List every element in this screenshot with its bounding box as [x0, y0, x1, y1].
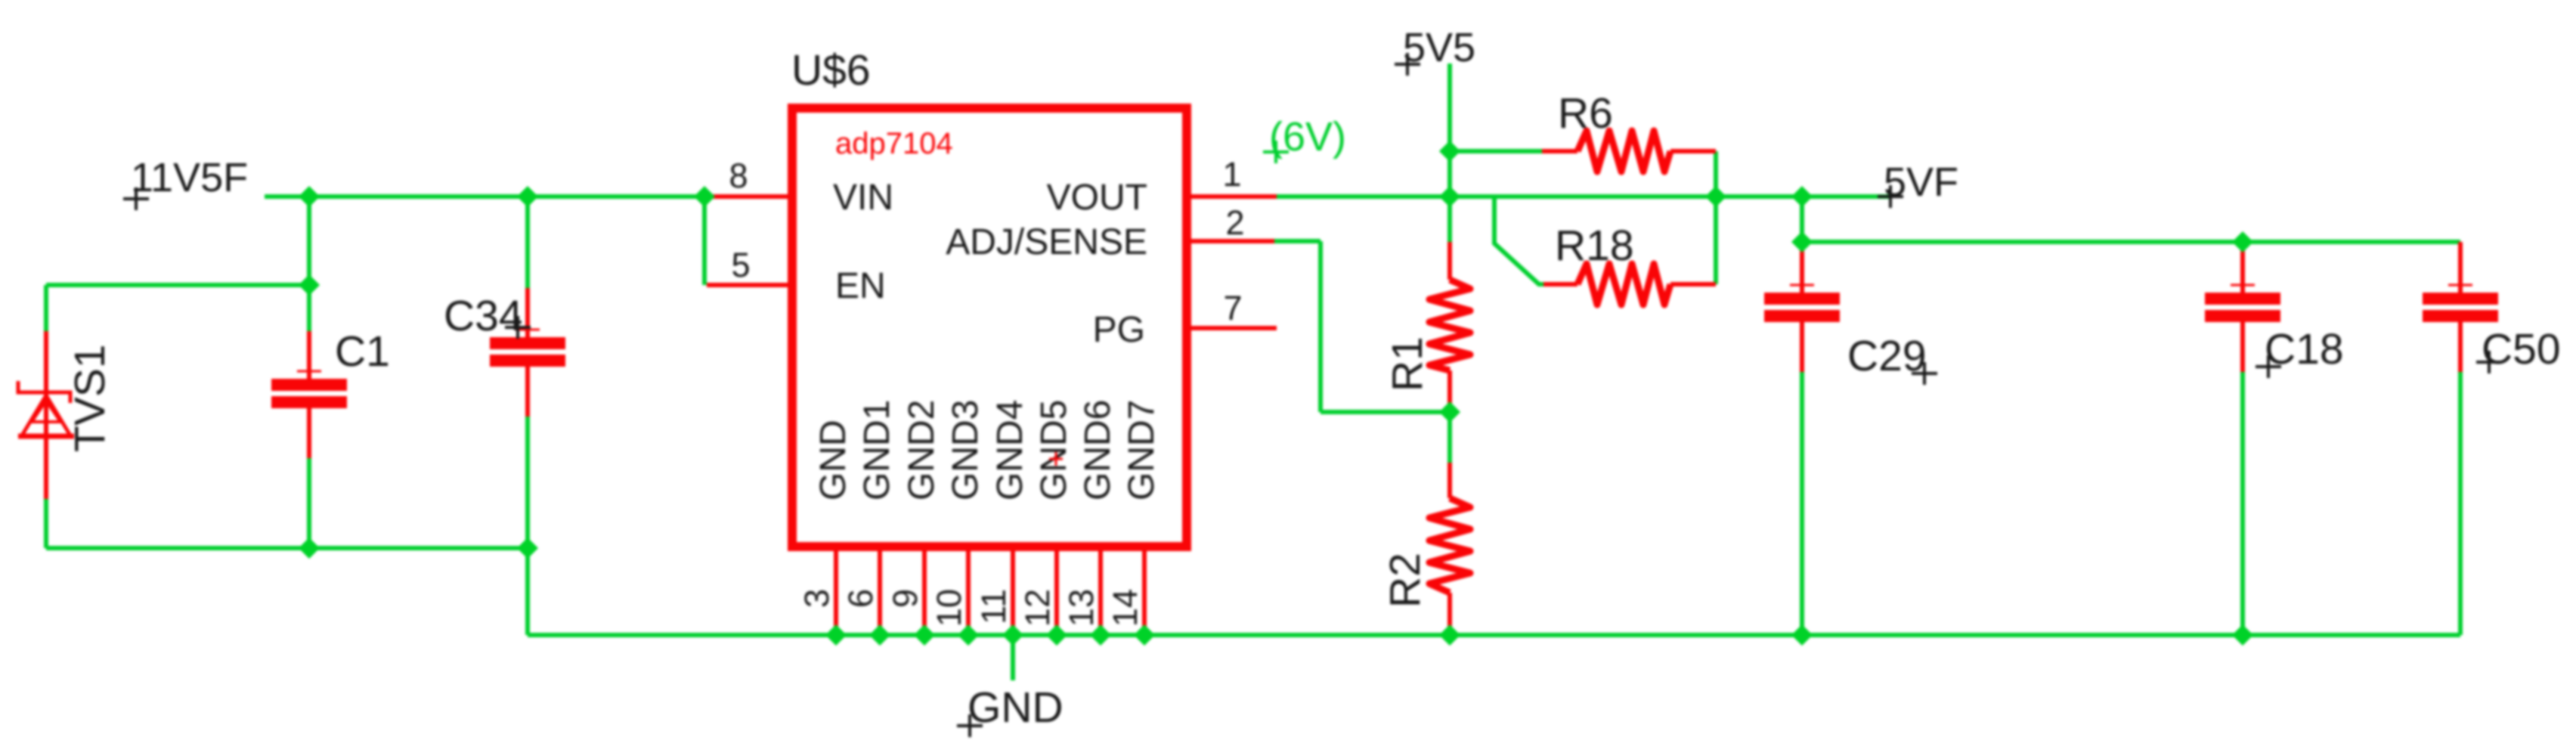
svg-text:U$6: U$6 — [791, 46, 871, 94]
svg-text:VOUT: VOUT — [1047, 178, 1147, 218]
svg-text:12: 12 — [1018, 589, 1057, 627]
svg-text:GND6: GND6 — [1078, 400, 1118, 500]
svg-text:GND2: GND2 — [902, 400, 942, 500]
svg-text:9: 9 — [886, 589, 924, 608]
svg-text:GND: GND — [813, 420, 853, 500]
svg-text:13: 13 — [1062, 589, 1101, 627]
svg-text:adp7104: adp7104 — [835, 127, 953, 160]
svg-text:PG: PG — [1093, 310, 1145, 350]
svg-text:GND4: GND4 — [990, 400, 1030, 500]
svg-text:VIN: VIN — [833, 178, 893, 218]
svg-text:R1: R1 — [1383, 336, 1432, 392]
svg-text:14: 14 — [1106, 589, 1144, 627]
svg-text:6: 6 — [841, 589, 880, 608]
svg-text:11: 11 — [974, 589, 1013, 624]
svg-text:10: 10 — [930, 589, 968, 627]
svg-text:R2: R2 — [1381, 553, 1429, 608]
svg-text:TVS1: TVS1 — [66, 344, 114, 452]
svg-text:GND5: GND5 — [1034, 400, 1074, 500]
svg-text:C1: C1 — [335, 327, 390, 376]
svg-text:3: 3 — [797, 589, 836, 608]
svg-text:C50: C50 — [2482, 325, 2561, 373]
svg-text:R6: R6 — [1558, 89, 1613, 138]
svg-text:GND7: GND7 — [1122, 400, 1162, 500]
svg-text:R18: R18 — [1555, 222, 1634, 270]
svg-text:7: 7 — [1223, 289, 1242, 327]
svg-text:1: 1 — [1222, 155, 1241, 194]
svg-text:ADJ/SENSE: ADJ/SENSE — [946, 222, 1147, 262]
svg-text:11V5F: 11V5F — [131, 155, 248, 200]
svg-text:GND1: GND1 — [857, 400, 897, 500]
svg-text:EN: EN — [835, 266, 886, 306]
svg-text:8: 8 — [729, 156, 748, 195]
svg-text:2: 2 — [1225, 203, 1244, 242]
svg-text:GND3: GND3 — [946, 400, 986, 500]
svg-text:5: 5 — [731, 246, 750, 284]
svg-text:C34: C34 — [444, 292, 523, 340]
